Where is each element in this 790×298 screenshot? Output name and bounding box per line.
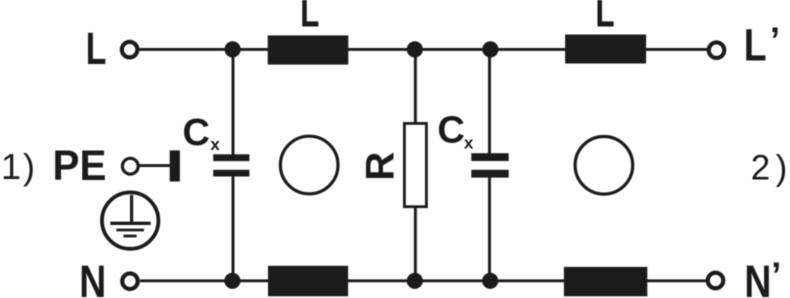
node top Cx2 (482, 41, 498, 57)
svg-text:R: R (359, 152, 403, 181)
terminal L (122, 42, 138, 58)
node bottom Cx2 (482, 273, 498, 289)
svg-text:PE: PE (53, 141, 107, 189)
wire R branch lower (414, 207, 417, 281)
svg-text:2): 2) (751, 149, 790, 188)
inductor L1 body (268, 35, 349, 64)
svg-text:’: ’ (771, 255, 781, 296)
svg-text:1): 1) (1, 146, 37, 187)
svg-text:’: ’ (770, 20, 780, 61)
wire bottom rail right segment (647, 279, 706, 282)
svg-text:N: N (79, 257, 106, 298)
terminal PE (122, 158, 138, 174)
svg-text:L: L (744, 20, 767, 70)
PE contact bar (170, 150, 180, 181)
svg-text:x: x (210, 135, 220, 154)
wire Cx2 branch lower (488, 177, 491, 281)
svg-text:C: C (437, 110, 464, 152)
capacitor Cx1 bottom plate (213, 170, 249, 177)
ground symbol (102, 192, 158, 248)
wire R branch upper (414, 49, 417, 124)
capacitor Cx2 bottom plate (471, 170, 508, 178)
inductor L3 body (268, 266, 348, 297)
terminal N' (708, 273, 724, 289)
wire bottom rail middle segment (348, 279, 564, 282)
wire Cx1 branch upper (232, 49, 235, 154)
toroid circle right (575, 137, 633, 195)
wire bottom rail left segment (140, 279, 268, 282)
node top Cx1 (225, 41, 241, 57)
wire top rail middle segment (348, 48, 566, 51)
node top R (407, 41, 423, 57)
capacitor Cx2 top plate (471, 153, 508, 161)
node bottom R (407, 273, 423, 289)
wire Cx2 branch upper (488, 49, 491, 153)
resistor R body (404, 123, 426, 206)
svg-text:N: N (744, 257, 771, 298)
toroid circle left (280, 136, 338, 194)
svg-text:L: L (86, 24, 107, 74)
node bottom Cx1 (224, 273, 240, 289)
terminal N (122, 273, 138, 289)
wire top rail left segment (139, 48, 268, 51)
capacitor Cx1 top plate (213, 154, 249, 161)
wire PE stub (139, 164, 171, 167)
svg-text:L: L (595, 0, 614, 37)
terminal L' (709, 42, 725, 58)
inductor L2 body (565, 35, 646, 64)
svg-text:C: C (183, 112, 210, 154)
svg-text:L: L (300, 0, 319, 37)
wire top rail right segment (646, 48, 707, 51)
svg-text:x: x (464, 133, 474, 152)
wire Cx1 branch lower (232, 176, 235, 281)
inductor L4 body (564, 267, 647, 296)
